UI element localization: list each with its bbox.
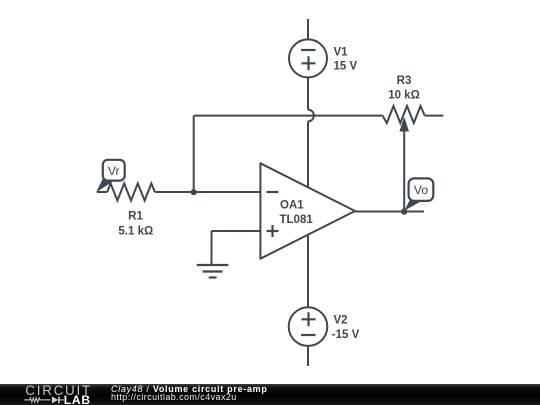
wire feedback horizontal xyxy=(194,115,383,117)
potentiometer R3 wiper arrow xyxy=(399,117,409,132)
wire feedback vertical xyxy=(193,116,195,192)
wire main vertical V+ to V- xyxy=(307,121,309,366)
svg-text:TL081: TL081 xyxy=(280,214,314,226)
wire inverting input xyxy=(194,191,261,193)
node flag Vo box xyxy=(409,178,434,201)
svg-text:R3: R3 xyxy=(397,75,412,87)
svg-text:Vo: Vo xyxy=(414,183,429,197)
voltage source V2 plus symbol xyxy=(302,312,316,326)
svg-text:V1: V1 xyxy=(334,46,349,58)
junction dot at inverting input xyxy=(191,189,197,195)
svg-text:15 V: 15 V xyxy=(334,61,358,73)
resistor R3 zigzag xyxy=(383,106,425,123)
wire hop over feedback xyxy=(308,110,314,122)
voltage source V1 plus symbol xyxy=(302,56,316,70)
CircuitLab logo resistor squiggle xyxy=(24,398,50,402)
svg-text:Vr: Vr xyxy=(108,164,120,178)
voltage source V2 circle xyxy=(289,307,328,346)
resistor R1 xyxy=(107,184,155,201)
node flag Vr box xyxy=(103,160,125,181)
wire R3 right lead xyxy=(425,115,444,117)
node flag Vr pointer xyxy=(96,177,116,193)
voltage source V2 minus symbol xyxy=(301,334,316,336)
op-amp OA1 plus input symbol xyxy=(267,225,279,237)
voltage source V1 circle xyxy=(289,39,327,77)
voltage source V1 minus symbol xyxy=(301,49,316,51)
svg-text:OA1: OA1 xyxy=(280,200,304,212)
op-amp OA1 triangle xyxy=(260,163,355,258)
svg-text:R1: R1 xyxy=(128,211,143,223)
footer bar xyxy=(0,384,540,405)
footer attribution text xyxy=(111,384,268,402)
svg-text:LAB: LAB xyxy=(64,393,91,405)
wire top supply xyxy=(307,19,309,110)
ground symbol xyxy=(197,265,229,278)
svg-text:10 kΩ: 10 kΩ xyxy=(388,90,420,102)
svg-text:-15 V: -15 V xyxy=(332,329,360,341)
wire R1 to junction xyxy=(155,191,194,193)
wire R1 left stub xyxy=(97,191,107,193)
wire to ground xyxy=(211,231,213,265)
wire wiper vertical xyxy=(403,131,405,212)
op-amp OA1 minus input symbol xyxy=(267,191,279,193)
CircuitLab logo diode xyxy=(52,396,58,403)
wire output xyxy=(355,211,424,213)
junction dot at output xyxy=(401,208,407,214)
svg-text:5.1 kΩ: 5.1 kΩ xyxy=(118,226,153,238)
svg-text:V2: V2 xyxy=(334,315,348,327)
wire non-inverting input xyxy=(212,230,261,232)
node flag Vo pointer xyxy=(404,200,421,211)
